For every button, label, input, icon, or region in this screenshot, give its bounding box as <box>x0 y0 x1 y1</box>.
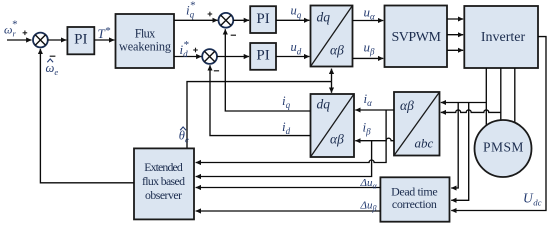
svg-text:correction: correction <box>392 197 437 211</box>
wire omega_e_hat feedback from observer to S1 <box>40 49 134 183</box>
wire theta_e_hat from observer to both dq transforms <box>187 69 332 149</box>
op PI q-axis current regulator box <box>250 6 276 33</box>
node minus sign below-right S3 <box>214 70 219 72</box>
node plus sign at speed summing junction <box>23 31 28 36</box>
wire u_d to dq/ab transform <box>276 56 309 58</box>
block U1 dq to alpha-beta voltage transform <box>311 6 353 67</box>
svg-text:αβ: αβ <box>330 132 344 147</box>
wire u_q to dq/ab transform <box>276 19 309 21</box>
node plus sign at S2 <box>208 12 213 17</box>
wire i_alpha branch down to observer with hop over i_beta branch <box>196 110 387 163</box>
wire i_q feedback from U3 up to S2 <box>225 29 310 111</box>
wire phase a current tap to alpha-beta/abc block input 1 <box>441 102 487 104</box>
wire i_beta from U2 to U3 with hop over i_alpha branch <box>355 138 394 141</box>
node omega_r* speed reference label <box>4 19 18 39</box>
wire speed reference input <box>7 39 32 41</box>
svg-text:SVPWM: SVPWM <box>391 30 441 45</box>
wire delta-u_alpha from dead time correction to observer <box>196 187 381 189</box>
summing junction S1 (speed) <box>33 33 48 48</box>
svg-text:weakening: weakening <box>119 39 171 53</box>
block flux weakening <box>116 14 175 68</box>
motor PMSM <box>475 120 532 177</box>
svg-text:PI: PI <box>256 48 269 64</box>
wire inverter phase b down to PMSM <box>500 68 502 124</box>
wire u_beta to SVPWM <box>353 57 384 59</box>
block U3 dq to alpha-beta current transform <box>311 94 355 157</box>
svg-text:Inverter: Inverter <box>481 30 526 45</box>
summing junction S2 (q-axis current) <box>219 13 234 28</box>
block dead time correction <box>380 177 449 221</box>
svg-text:Extended: Extended <box>144 160 183 174</box>
wire inverter phase a down to PMSM <box>485 68 487 128</box>
wire i_alpha from U2 to U3 dq transform <box>355 109 394 111</box>
wire SVPWM to inverter gate 1 <box>447 18 463 20</box>
wire u_alpha to SVPWM <box>353 20 384 22</box>
svg-text:PI: PI <box>256 11 269 27</box>
node omega_e_hat estimated speed label <box>46 59 59 77</box>
wire S3 to PI d-axis <box>217 56 249 58</box>
wire SVPWM to inverter gate 2 <box>447 34 463 36</box>
op PI speed regulator box <box>67 27 94 54</box>
node theta_e_hat label <box>179 127 189 144</box>
wire i_d feedback from U3 up to S3 <box>210 65 311 135</box>
wire U_dc from inverter right side down to dead time correction <box>451 37 546 211</box>
svg-text:flux based: flux based <box>142 174 185 188</box>
svg-text:ωr*: ωr* <box>4 19 18 39</box>
svg-text:dq: dq <box>317 10 331 25</box>
svg-text:observer: observer <box>145 188 182 202</box>
wire S1 to PI speed regulator <box>48 39 67 41</box>
block extended flux based observer <box>134 148 194 219</box>
svg-text:αβ: αβ <box>330 42 344 57</box>
wire SVPWM to inverter gate 3 <box>447 49 463 51</box>
wire i_d* reference to summing junction S3 <box>174 56 202 58</box>
node minus sign below S1 <box>50 55 56 57</box>
svg-text:αβ: αβ <box>400 98 414 113</box>
wire inverter phase c down to PMSM <box>514 68 516 127</box>
op PI d-axis current regulator box <box>250 43 276 70</box>
svg-text:abc: abc <box>415 136 434 151</box>
wire branch phase current to dead time correction input 2 <box>451 103 469 201</box>
node minus sign below-right S2 <box>231 34 236 36</box>
wire delta-u_beta from dead time correction to observer <box>196 210 381 212</box>
wire branch phase current to dead time correction input 1 <box>451 103 458 189</box>
wire i_beta branch down to observer <box>196 141 372 177</box>
svg-text:dq: dq <box>317 97 331 112</box>
wire phase b current tap to alpha-beta/abc block input 2 with hops <box>441 110 501 112</box>
wire S2 to PI q-axis <box>233 19 249 21</box>
summing junction S3 (d-axis current) <box>202 49 217 64</box>
wire i_q* reference to summing junction S2 <box>174 19 218 21</box>
block inverter <box>464 6 538 68</box>
svg-text:PMSM: PMSM <box>483 139 524 154</box>
wire PI to flux weakening with T* <box>94 39 114 41</box>
block U2 alpha-beta to abc current transform <box>394 92 440 156</box>
block SVPWM <box>385 6 448 68</box>
svg-text:Flux: Flux <box>135 26 156 40</box>
svg-text:PI: PI <box>74 32 87 48</box>
node plus sign at S3 <box>193 48 198 53</box>
